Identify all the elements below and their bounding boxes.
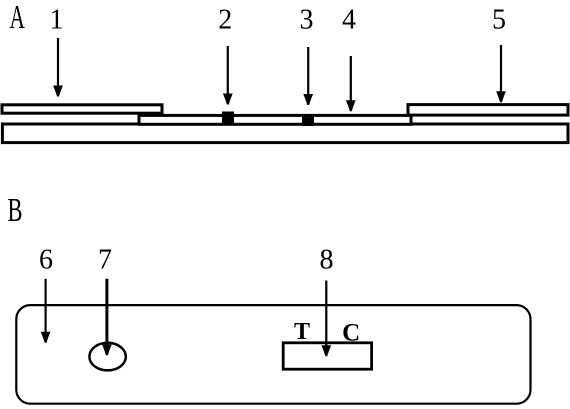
svg-text:T: T [294,319,310,345]
backing card [2,124,568,143]
control line 3 [302,114,314,126]
svg-text:3: 3 [300,4,314,35]
arrow 1 [53,38,63,97]
test line 2 [222,112,234,126]
svg-text:4: 4 [342,4,356,35]
membrane [139,115,411,124]
svg-text:6: 6 [39,245,53,276]
arrow 6 [41,279,51,343]
svg-text:5: 5 [492,4,506,35]
arrow 8 [321,281,331,357]
svg-text:2: 2 [218,4,232,35]
svg-text:7: 7 [98,245,112,276]
svg-text:8: 8 [320,244,334,275]
svg-text:B: B [8,192,23,229]
svg-text:1: 1 [50,4,64,35]
arrow 4 [346,56,356,111]
arrow 2 [223,46,233,105]
arrow 7 [102,279,112,356]
svg-text:A: A [10,0,26,36]
arrow 5 [496,45,506,102]
sample pad 1 [2,105,162,113]
absorbent pad 5 [408,105,568,116]
arrow 3 [303,47,313,105]
sample well 7 [89,343,125,371]
result window 8 [283,343,371,369]
cassette body [16,305,530,404]
